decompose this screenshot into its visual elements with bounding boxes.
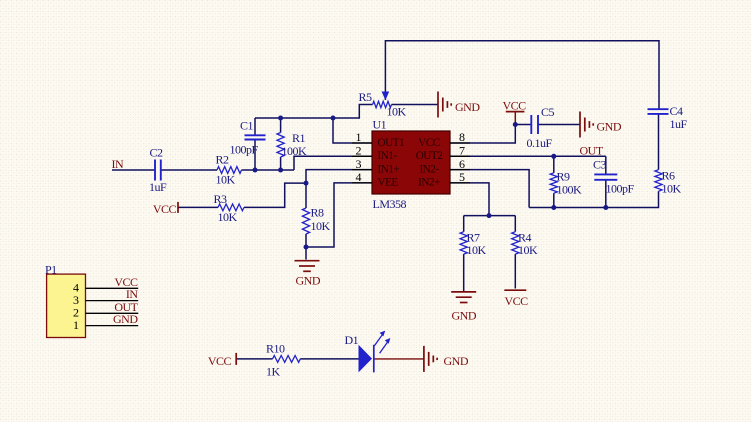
svg-text:1: 1 bbox=[73, 318, 79, 332]
ground GND at R5 bbox=[438, 92, 480, 118]
wire R1 bottom lead bbox=[280, 157, 282, 170]
svg-text:10K: 10K bbox=[467, 243, 487, 257]
junction C3 bottom bbox=[603, 205, 608, 210]
wire VCC to R3 bbox=[178, 206, 218, 208]
junction C1 bottom bbox=[253, 168, 258, 173]
wire D1 to GND bbox=[374, 358, 424, 360]
svg-text:R3: R3 bbox=[214, 192, 228, 206]
svg-text:R10: R10 bbox=[266, 342, 285, 356]
svg-text:R1: R1 bbox=[292, 131, 306, 145]
svg-text:10K: 10K bbox=[387, 104, 407, 118]
wire node A to R5 bbox=[333, 105, 373, 119]
svg-text:R5: R5 bbox=[359, 90, 373, 104]
svg-text:R2: R2 bbox=[216, 153, 230, 167]
wire IN rail bbox=[112, 169, 294, 171]
svg-text:GND: GND bbox=[444, 354, 469, 368]
wire C1 top lead bbox=[254, 118, 256, 135]
svg-text:C4: C4 bbox=[670, 104, 684, 118]
svg-text:10K: 10K bbox=[662, 182, 682, 196]
wire C3 bottom lead bbox=[605, 180, 607, 208]
wire VCC node to C5 bbox=[515, 124, 531, 126]
svg-text:OUT1: OUT1 bbox=[378, 137, 405, 149]
svg-text:VEE: VEE bbox=[378, 177, 399, 189]
resistor R10 bbox=[266, 342, 300, 379]
svg-text:7: 7 bbox=[459, 144, 465, 158]
wire pin4 to node C bbox=[306, 183, 372, 247]
junction node B bbox=[304, 181, 309, 186]
svg-text:IN: IN bbox=[112, 157, 124, 171]
resistor R1 bbox=[277, 131, 307, 158]
svg-text:0.1uF: 0.1uF bbox=[527, 136, 553, 150]
U1 pins 1-8 bbox=[352, 130, 470, 184]
wire pin3 bbox=[306, 170, 372, 184]
ground GND at C5 bbox=[580, 112, 622, 138]
svg-text:100K: 100K bbox=[557, 183, 583, 197]
svg-text:2: 2 bbox=[356, 144, 362, 158]
ground GND at D1 bbox=[424, 346, 469, 372]
svg-text:6: 6 bbox=[459, 157, 465, 171]
svg-text:C5: C5 bbox=[541, 105, 555, 119]
capacitor C4 bbox=[648, 104, 688, 131]
svg-text:GND: GND bbox=[597, 120, 622, 134]
potentiometer R5 bbox=[359, 90, 407, 118]
resistor R3 bbox=[214, 192, 245, 224]
svg-text:OUT2: OUT2 bbox=[416, 150, 443, 162]
junction node C bbox=[304, 245, 309, 250]
svg-text:10K: 10K bbox=[311, 219, 331, 233]
wire C1/R1 top bus bbox=[255, 117, 333, 119]
port IN bbox=[112, 157, 124, 171]
power VCC at R4 bbox=[504, 290, 528, 308]
wire pin7 OUT bbox=[450, 155, 606, 157]
svg-text:VCC: VCC bbox=[208, 354, 232, 368]
resistor R2 bbox=[216, 153, 242, 187]
svg-text:D1: D1 bbox=[345, 333, 359, 347]
connector P1 bbox=[45, 262, 139, 337]
junction node A bbox=[331, 116, 336, 121]
svg-text:10K: 10K bbox=[216, 173, 236, 187]
wire pin8 to VCC bbox=[450, 125, 515, 144]
power VCC at C5 bbox=[503, 99, 527, 125]
svg-text:10K: 10K bbox=[218, 210, 238, 224]
svg-text:VCC: VCC bbox=[418, 137, 440, 149]
wire R1 top lead bbox=[280, 118, 282, 133]
svg-text:P1: P1 bbox=[45, 262, 57, 276]
resistor R8 bbox=[302, 206, 330, 235]
wire C1 bottom lead bbox=[254, 140, 256, 171]
svg-text:GND: GND bbox=[113, 312, 138, 326]
power VCC at R3 bbox=[153, 202, 178, 216]
svg-text:GND: GND bbox=[296, 273, 321, 287]
wire R8 top lead bbox=[305, 183, 307, 208]
svg-text:R6: R6 bbox=[662, 169, 676, 183]
svg-text:100K: 100K bbox=[282, 144, 308, 158]
svg-text:1K: 1K bbox=[266, 365, 281, 379]
svg-text:C3: C3 bbox=[593, 157, 607, 171]
wire C3 top lead bbox=[605, 156, 607, 174]
wire R8 bottom lead bbox=[305, 234, 307, 247]
wire node A to pin1 bbox=[333, 118, 372, 143]
svg-text:1uF: 1uF bbox=[670, 117, 688, 131]
capacitor C2 bbox=[149, 145, 167, 194]
ground GND at R7 bbox=[451, 292, 477, 323]
svg-text:OUT: OUT bbox=[580, 144, 604, 158]
svg-text:5: 5 bbox=[459, 170, 465, 184]
junction VCC node bbox=[513, 122, 518, 127]
wire R9 top lead bbox=[553, 156, 555, 173]
svg-text:VCC: VCC bbox=[503, 99, 527, 113]
wire node B to R3 bbox=[244, 183, 306, 207]
svg-text:IN2-: IN2- bbox=[419, 163, 439, 175]
svg-text:1uF: 1uF bbox=[149, 180, 167, 194]
LED D1 bbox=[345, 331, 391, 373]
junction OUT/R9 bbox=[551, 154, 556, 159]
wire R4 leads bbox=[514, 216, 516, 289]
resistor R6 bbox=[655, 169, 682, 196]
resistor R7 bbox=[460, 231, 486, 257]
op-amp U1 LM358 bbox=[372, 117, 450, 211]
junction R7/R4 bbox=[487, 213, 492, 218]
svg-text:R8: R8 bbox=[311, 206, 325, 220]
wire C4 to R6 bbox=[658, 114, 660, 170]
svg-text:VCC: VCC bbox=[505, 294, 529, 308]
resistor R4 bbox=[512, 231, 538, 257]
junction R1 top bbox=[278, 116, 283, 121]
power VCC at R10 bbox=[208, 353, 236, 368]
svg-text:4: 4 bbox=[356, 170, 362, 184]
svg-text:1: 1 bbox=[356, 130, 362, 144]
wire VCC to R10 bbox=[236, 358, 272, 360]
svg-text:100pF: 100pF bbox=[230, 143, 259, 157]
junction R1 bottom bbox=[278, 168, 283, 173]
svg-text:IN1-: IN1- bbox=[378, 150, 398, 162]
svg-text:100pF: 100pF bbox=[606, 181, 635, 195]
wire R7 leads bbox=[463, 216, 465, 292]
svg-text:GND: GND bbox=[455, 100, 480, 114]
svg-text:IN1+: IN1+ bbox=[378, 163, 400, 175]
wire C5 to GND bbox=[538, 124, 580, 126]
svg-text:LM358: LM358 bbox=[373, 197, 407, 211]
capacitor C5 bbox=[527, 105, 555, 150]
wire R8 to GND lead bbox=[305, 247, 307, 260]
svg-text:GND: GND bbox=[452, 308, 477, 322]
junction R9 bottom bbox=[551, 205, 556, 210]
svg-text:C2: C2 bbox=[150, 145, 164, 159]
resistor R9 bbox=[550, 170, 582, 197]
port OUT bbox=[580, 144, 604, 158]
capacitor C3 bbox=[593, 157, 635, 195]
wire R7/R4 bus bbox=[464, 215, 516, 217]
svg-text:3: 3 bbox=[356, 157, 362, 171]
wire R9 bottom lead bbox=[553, 193, 555, 207]
wire pin5 down bbox=[450, 183, 489, 216]
capacitor C1 bbox=[230, 119, 266, 157]
svg-text:VCC: VCC bbox=[153, 202, 177, 216]
wire rail to pin2 step bbox=[294, 156, 372, 170]
wire R5 wiper feedback top bbox=[385, 41, 659, 110]
svg-text:C1: C1 bbox=[240, 119, 254, 133]
svg-text:U1: U1 bbox=[373, 117, 387, 131]
wire R5 to GND bbox=[392, 104, 439, 106]
wire bottom bus R6/C3/R9 bbox=[529, 191, 658, 207]
svg-text:10K: 10K bbox=[518, 243, 538, 257]
wire R10 to D1 bbox=[300, 358, 358, 360]
wire bus to pin6 bbox=[450, 170, 529, 208]
ground GND at R8 bbox=[295, 261, 321, 288]
svg-text:8: 8 bbox=[459, 130, 465, 144]
svg-text:IN2+: IN2+ bbox=[418, 177, 440, 189]
